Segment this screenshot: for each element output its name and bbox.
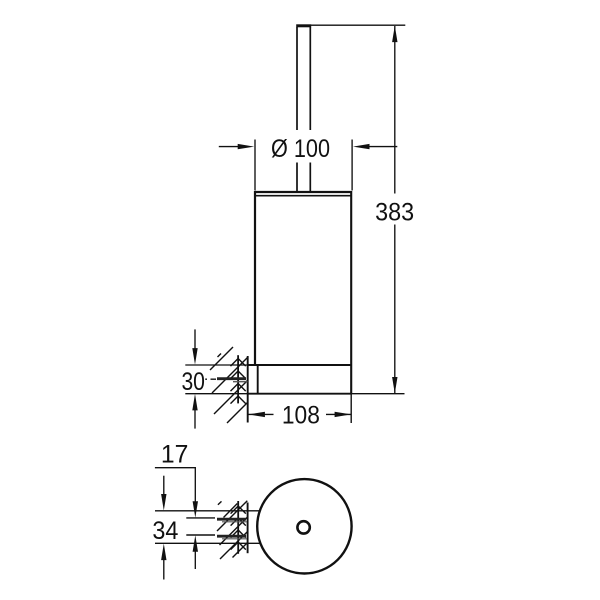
wall hatching side view — [210, 347, 248, 423]
screw 2 bottom view — [217, 535, 246, 538]
svg-text:17: 17 — [161, 441, 189, 469]
bottom view screw line B — [186, 517, 215, 519]
bottom view screw line C — [186, 534, 215, 536]
bottom view screw hole — [297, 521, 309, 533]
dimension Ø100 left arrow — [219, 144, 254, 149]
dimension Ø100 left extension line — [254, 140, 256, 191]
dimension 108 line — [248, 413, 351, 415]
anchor trunk side view — [237, 355, 239, 403]
screw 1 bottom view — [217, 518, 246, 521]
dimension 383 bottom arrowhead — [392, 377, 397, 394]
screw side view — [217, 377, 246, 380]
screw echo line side view — [233, 381, 248, 383]
band inner vertical line — [257, 365, 259, 394]
brush handle right side — [309, 27, 311, 191]
dimension 34 bottom arrow — [161, 544, 166, 580]
anchor chevrons bottom view — [231, 506, 246, 550]
vessel rim top line — [255, 191, 351, 193]
screw 2 echo bottom view — [222, 538, 247, 540]
mounting band top edge — [248, 364, 352, 366]
svg-text:30: 30 — [181, 368, 205, 396]
svg-text:383: 383 — [375, 198, 414, 226]
wall hatching bottom view — [217, 501, 247, 559]
dimension 30 bottom extension line — [185, 393, 248, 395]
dimension 17 leader — [155, 467, 195, 469]
dimension Ø100 right extension line — [351, 140, 353, 191]
wall line side view — [247, 356, 249, 423]
dimension 383 top arrowhead — [392, 26, 397, 42]
brush handle top cap — [296, 24, 311, 27]
wall line bottom view — [247, 503, 249, 554]
svg-text:Ø 100: Ø 100 — [271, 135, 330, 163]
anchor trunk bottom view — [237, 501, 239, 554]
bottom view vessel circle — [257, 479, 351, 573]
dimension 17 bottom arrow — [193, 535, 198, 569]
vessel right extension down (108 right) — [350, 394, 352, 423]
dimension 17 drop line with arrow — [193, 468, 198, 518]
bottom view bracket top line A — [155, 510, 260, 512]
brush handle left side — [296, 27, 298, 191]
mounting band bottom edge — [248, 393, 352, 395]
anchor chevrons side view — [231, 359, 246, 404]
dimension 34 top arrow — [161, 476, 166, 511]
svg-text:34: 34 — [152, 517, 178, 545]
dimension 383 line — [394, 26, 396, 393]
dimension 108 left arrowhead — [248, 412, 265, 417]
dimension 30 top arrow — [192, 329, 197, 364]
extension line top (383 upper) — [311, 24, 405, 26]
band bottom extension right (383 lower) — [352, 393, 405, 395]
vessel right edge — [350, 191, 352, 394]
screw centerline dash-dot side view — [205, 378, 216, 380]
screw 1 echo bottom view — [222, 521, 247, 523]
bottom view bracket bottom line D — [155, 542, 260, 544]
svg-text:108: 108 — [282, 401, 320, 429]
dimension 30 bottom arrow — [192, 394, 197, 429]
dimension 108 right arrowhead — [335, 412, 352, 417]
dimension 30 top extension line — [185, 364, 248, 366]
vessel left edge — [254, 191, 256, 365]
vessel rim second line — [255, 195, 351, 197]
dimension Ø100 right arrow — [353, 144, 397, 149]
